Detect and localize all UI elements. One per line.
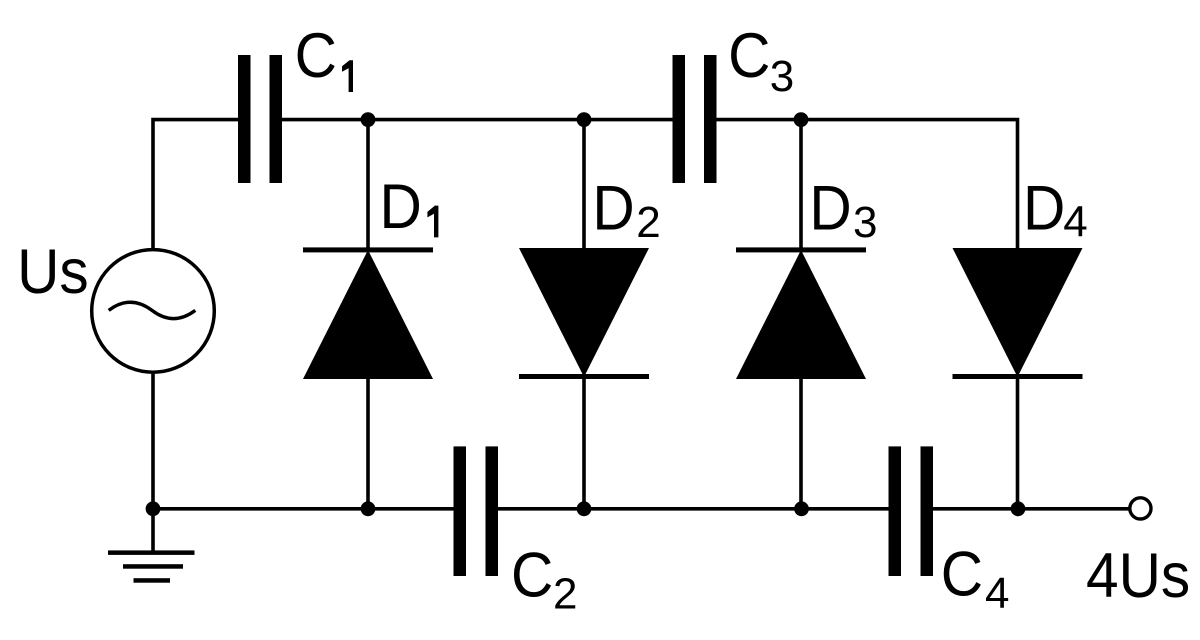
svg-text:Us: Us xyxy=(17,236,89,306)
svg-text:2: 2 xyxy=(636,198,660,247)
svg-text:C: C xyxy=(295,20,337,90)
svg-text:C: C xyxy=(728,20,770,90)
svg-text:4: 4 xyxy=(985,569,1009,618)
svg-text:3: 3 xyxy=(853,198,877,247)
svg-text:D: D xyxy=(592,173,634,243)
svg-text:4Us: 4Us xyxy=(1086,540,1190,610)
svg-text:D: D xyxy=(380,171,422,241)
svg-text:3: 3 xyxy=(770,52,794,101)
svg-text:D: D xyxy=(809,173,851,243)
svg-text:C: C xyxy=(511,540,553,610)
svg-text:4: 4 xyxy=(1063,198,1087,247)
svg-text:C: C xyxy=(941,539,983,609)
svg-text:2: 2 xyxy=(553,569,577,618)
svg-text:D: D xyxy=(1023,173,1065,243)
